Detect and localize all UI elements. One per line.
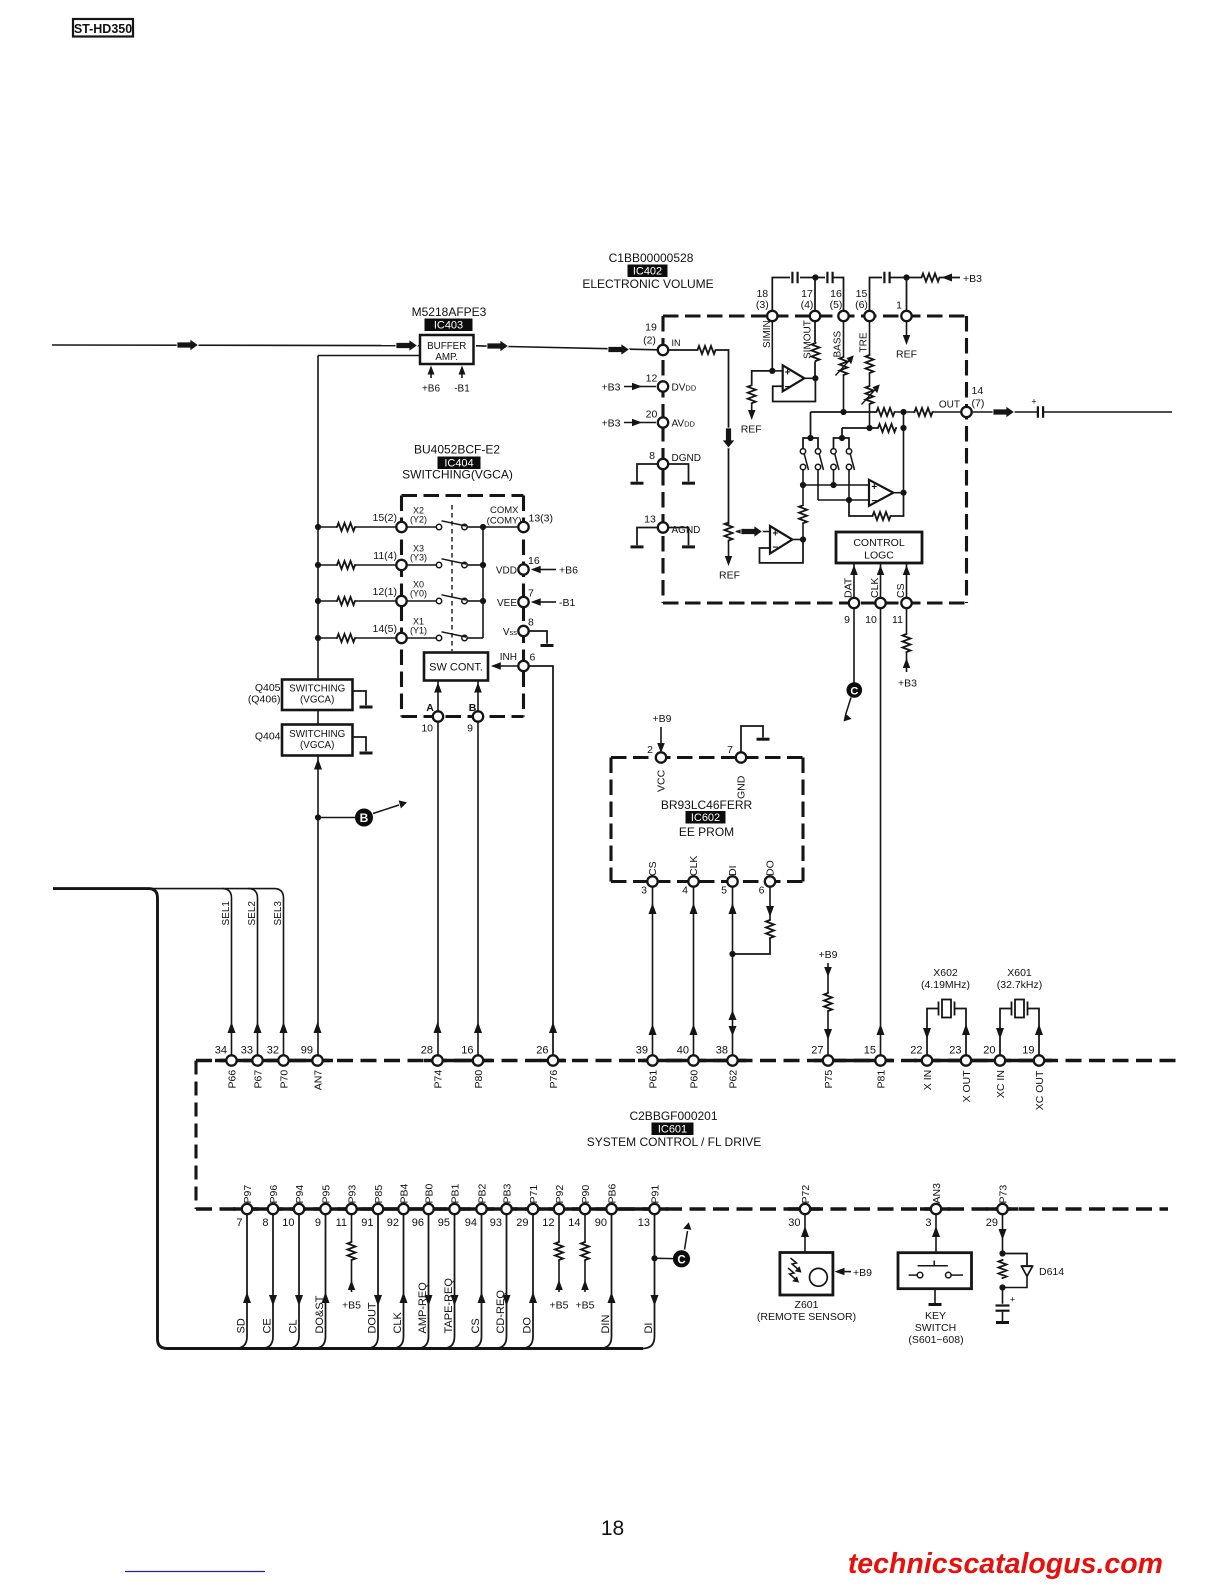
- wire OUT to coupling cap: [972, 411, 1038, 413]
- svg-text:ST-HD350: ST-HD350: [74, 22, 132, 36]
- wire pin11 CS to +B3: [906, 608, 908, 633]
- arrowhead CL: [295, 1295, 303, 1306]
- svg-text:P95: P95: [320, 1185, 332, 1204]
- wire signal column CS: [470, 1214, 482, 1348]
- wire row1 corner down to switch group1: [810, 412, 812, 438]
- svg-text:93: 93: [490, 1217, 502, 1229]
- pin 99 AN7 on IC601 top bus: [312, 1055, 322, 1065]
- pin 96 PB0 on IC601 bottom bus: [423, 1204, 433, 1214]
- wire DO down: [769, 887, 771, 919]
- pin 12 DVDD: [658, 381, 668, 391]
- svg-text:8: 8: [262, 1217, 268, 1229]
- svg-text:X602: X602: [933, 967, 958, 979]
- pin 15 (6) TRE: [864, 311, 874, 321]
- wire harness corner down: [149, 889, 158, 898]
- arrow from connector B: [373, 805, 399, 814]
- svg-text:CL: CL: [288, 1319, 300, 1333]
- svg-text:CLK: CLK: [869, 578, 881, 598]
- wire op-amp2 output: [893, 492, 903, 494]
- svg-text:90: 90: [595, 1217, 607, 1229]
- wire to resistor row 12(1): [318, 600, 336, 602]
- arrowhead toward resistor: [942, 274, 953, 282]
- svg-text:-B1: -B1: [454, 384, 470, 395]
- signal arrow on input line: [177, 339, 199, 351]
- wire switch output row 14(5): [467, 637, 483, 639]
- wire pin18 to cap row: [772, 278, 790, 312]
- svg-text:+B3: +B3: [602, 418, 621, 430]
- svg-text:OUT: OUT: [939, 400, 960, 411]
- svg-text:technicscatalogus.com: technicscatalogus.com: [848, 1548, 1163, 1580]
- svg-text:10: 10: [421, 723, 433, 735]
- pot arrow TRE: [862, 388, 878, 405]
- svg-text:Q404: Q404: [255, 731, 281, 743]
- resistor SIMOUT: [812, 342, 820, 362]
- svg-text:11: 11: [892, 614, 903, 626]
- IC601 bottom bus (dashed): [196, 1207, 1168, 1210]
- wire CLK to control logic: [880, 563, 882, 598]
- svg-text:PB2: PB2: [476, 1183, 488, 1203]
- capacitor C (TRE row): [883, 272, 885, 284]
- wire op-amp1 output: [804, 377, 815, 379]
- svg-text:(COMY): (COMY): [487, 516, 522, 527]
- arrowhead CE: [269, 1295, 277, 1306]
- svg-text:11(4): 11(4): [373, 550, 397, 562]
- wire resistor to pin 11(4): [356, 564, 397, 566]
- svg-text:DVDD: DVDD: [672, 383, 697, 394]
- svg-text:DOUT: DOUT: [367, 1302, 379, 1333]
- wire audio input line: [52, 344, 420, 347]
- wire pin10 CLK down to P81: [880, 608, 882, 1055]
- pin 20 XC IN on IC601 top bus: [995, 1055, 1005, 1065]
- svg-text:Z601: Z601: [795, 1299, 819, 1311]
- wire SIMIN pin down: [771, 321, 773, 371]
- svg-text:X601: X601: [1007, 967, 1032, 979]
- resistor P75: [824, 992, 832, 1012]
- wire pin16 down: [843, 321, 845, 356]
- switch contacts row 11(4): [407, 564, 437, 566]
- svg-text:PB0: PB0: [423, 1183, 435, 1203]
- pin 13 AGND: [658, 522, 668, 532]
- svg-text:92: 92: [387, 1217, 399, 1229]
- svg-text:P67: P67: [252, 1070, 264, 1089]
- svg-text:P91: P91: [649, 1185, 661, 1204]
- arrowhead P61 near bus: [649, 1024, 657, 1035]
- svg-text:20: 20: [646, 409, 658, 421]
- ground stub Q405: [353, 691, 367, 705]
- wire A down to P74: [437, 722, 439, 1056]
- svg-text:P93: P93: [346, 1185, 358, 1204]
- supply +B9 into Z601: [841, 1271, 851, 1273]
- arrowhead P75 down: [824, 1029, 832, 1040]
- node row1 mid: [900, 409, 906, 415]
- pin 6 DO: [765, 876, 775, 886]
- wire TRE resistor to pot: [869, 374, 871, 385]
- wire P72 to remote sensor: [804, 1214, 806, 1252]
- wire to resistor row 11(4): [318, 564, 336, 566]
- svg-text:5: 5: [721, 885, 727, 897]
- switch contact 3 (IC402): [831, 449, 836, 454]
- wire SEL1 to P66: [231, 898, 233, 1056]
- pin 26 P76 on IC601 top bus: [548, 1055, 558, 1065]
- pin 91 P85 on IC601 bottom bus: [373, 1204, 383, 1214]
- node BASS joins row1: [840, 409, 846, 415]
- svg-text:30: 30: [788, 1217, 800, 1229]
- wire INH to P76 column: [529, 666, 553, 1056]
- svg-text:12: 12: [646, 373, 658, 385]
- pin 19 (2) IN: [658, 345, 668, 355]
- svg-text:P75: P75: [823, 1070, 835, 1089]
- svg-text:SEL1: SEL1: [221, 901, 232, 926]
- pullup resistor to +B5: [351, 1214, 353, 1241]
- node SIMIN junction: [769, 368, 775, 374]
- pin 9 DAT: [849, 598, 859, 608]
- svg-text:XC IN: XC IN: [995, 1070, 1007, 1098]
- wire feedback to - row: [849, 500, 872, 516]
- wire signal column CL: [287, 1214, 299, 1348]
- resistor row1 a: [876, 408, 896, 416]
- arrowhead P80 up: [474, 1022, 482, 1033]
- wire summing row 2: [842, 427, 877, 429]
- wire junction to connector C: [655, 1257, 674, 1259]
- IC602 border left: [609, 758, 612, 882]
- key switch actuator: [918, 1265, 948, 1267]
- svg-text:P76: P76: [548, 1070, 560, 1089]
- box Z601 remote sensor: [780, 1253, 833, 1296]
- svg-text:(32.7kHz): (32.7kHz): [997, 979, 1043, 991]
- svg-text:(4): (4): [801, 299, 814, 311]
- svg-text:(3): (3): [756, 299, 769, 311]
- svg-text:(VGCA): (VGCA): [300, 740, 334, 751]
- svg-text:7: 7: [236, 1217, 242, 1229]
- node op-amp3 output: [800, 536, 806, 542]
- arrow from connector C (bottom): [685, 1231, 688, 1250]
- svg-text:X OUT: X OUT: [961, 1070, 973, 1103]
- wire junction to resistor: [907, 277, 921, 279]
- svg-text:IN: IN: [672, 338, 681, 348]
- wire harness vertical: [156, 898, 159, 1339]
- capacitor electrolytic on OUT: [1037, 406, 1039, 418]
- svg-text:SD: SD: [236, 1318, 248, 1333]
- connector B: [355, 809, 373, 827]
- node junction above pin 1: [903, 274, 909, 280]
- svg-text:C: C: [677, 1254, 685, 1266]
- wire signal column CLK: [392, 1214, 404, 1348]
- wire signal column DI: [643, 1214, 655, 1348]
- power +B6 arrow into IC403: [430, 368, 432, 378]
- svg-text:XC OUT: XC OUT: [1034, 1070, 1046, 1110]
- IC402 border top: [663, 314, 967, 317]
- arrowhead +B3 up (CS): [903, 658, 910, 668]
- wire D614 branch: [1003, 1254, 1028, 1266]
- wire SEL2 bend: [248, 889, 258, 898]
- svg-text:AN7: AN7: [312, 1070, 324, 1091]
- svg-text:TAPE-REQ: TAPE-REQ: [443, 1278, 455, 1334]
- node switch group2 top: [839, 435, 845, 441]
- potentiometer TRE: [866, 385, 874, 405]
- svg-text:P85: P85: [373, 1185, 385, 1204]
- switch contact 1 (IC402): [800, 449, 805, 454]
- wire signal column AMP-REQ: [417, 1214, 429, 1348]
- svg-text:KEY: KEY: [925, 1310, 946, 1322]
- transistor Q404 switching box: [282, 725, 353, 756]
- svg-text:−: −: [772, 543, 778, 554]
- svg-text:B: B: [360, 811, 369, 825]
- svg-text:+B3: +B3: [898, 678, 917, 690]
- svg-text:EE PROM: EE PROM: [679, 825, 734, 839]
- svg-text:GND: GND: [736, 775, 748, 799]
- arrowhead DI: [651, 1295, 659, 1306]
- potentiometer BASS: [840, 356, 848, 376]
- resistor input 14(5): [336, 634, 356, 642]
- IC601 top bus (dashed): [196, 1059, 1180, 1062]
- svg-text:(5): (5): [830, 299, 843, 311]
- switch contact 4 (IC402): [846, 449, 851, 454]
- svg-text:−: −: [871, 496, 877, 507]
- svg-text:9: 9: [467, 723, 473, 735]
- pin 5 DI: [727, 876, 737, 886]
- wire signal column SD: [235, 1214, 247, 1348]
- wire cap down to pin 16: [833, 278, 844, 312]
- svg-text:VCC: VCC: [656, 769, 668, 792]
- arrowhead AMP-REQ: [425, 1295, 433, 1306]
- pin 8 P96 on IC601 bottom bus: [268, 1204, 278, 1214]
- svg-text:20: 20: [983, 1045, 995, 1057]
- svg-text:29: 29: [516, 1217, 528, 1229]
- wire pot to REF arrow: [728, 542, 730, 560]
- pin 16 VDD: [518, 564, 528, 574]
- svg-text:11: 11: [336, 1217, 347, 1229]
- wire P73 down: [1002, 1214, 1004, 1253]
- wire resistor to pin 15(2): [356, 526, 397, 528]
- ground under key switch: [934, 1289, 936, 1303]
- svg-text:(Y0): (Y0): [410, 589, 427, 599]
- arrowhead P76 up: [549, 1022, 557, 1033]
- node junction above pin 17: [812, 274, 818, 280]
- pin 95 PB1 on IC601 bottom bus: [449, 1204, 459, 1214]
- svg-text:DO: DO: [765, 860, 777, 876]
- pin 7 P97 on IC601 bottom bus: [242, 1204, 252, 1214]
- svg-text:P90: P90: [580, 1185, 592, 1204]
- svg-text:IC602: IC602: [691, 812, 720, 824]
- arrowhead AN7 up: [314, 1022, 322, 1033]
- svg-text:SEL2: SEL2: [247, 901, 258, 926]
- capacitor C (SIMIN-SIMOUT): [791, 272, 793, 284]
- svg-text:8: 8: [528, 617, 534, 629]
- wire signal column DIN: [600, 1214, 612, 1348]
- box CONTROL LOGC: [836, 532, 922, 563]
- svg-text:PB1: PB1: [449, 1183, 461, 1203]
- svg-text:DAT: DAT: [843, 577, 855, 598]
- arrowhead CLK: [400, 1292, 408, 1303]
- pin 93 PB3 on IC601 bottom bus: [501, 1204, 511, 1214]
- svg-text:CS: CS: [470, 1318, 482, 1333]
- svg-text:AVDD: AVDD: [672, 419, 696, 430]
- crystal X602 (4.19MHz): [927, 1009, 939, 1056]
- svg-text:22: 22: [910, 1045, 922, 1057]
- pin 16 (5) BASS: [838, 311, 848, 321]
- svg-text:IC601: IC601: [658, 1123, 687, 1135]
- IC601 top bus solid segment: [424, 1059, 492, 1062]
- svg-text:3: 3: [925, 1217, 931, 1229]
- arrowhead P81 up: [877, 1024, 885, 1035]
- svg-text:PB3: PB3: [501, 1183, 513, 1203]
- pin 10 A: [433, 711, 443, 721]
- wire to resistor row 14(5): [318, 637, 336, 639]
- ground DGND right: [668, 464, 688, 482]
- svg-text:13(3): 13(3): [529, 513, 554, 525]
- svg-text:19: 19: [1022, 1045, 1034, 1057]
- wire op-amp2 feedback: [892, 493, 904, 516]
- wire contact2 down to - row: [817, 470, 819, 500]
- switch contacts row 12(1): [407, 600, 437, 602]
- node COM row1: [480, 524, 486, 530]
- node B connector junction: [315, 814, 321, 820]
- arrowhead CS: [478, 1292, 486, 1303]
- svg-text:COMX: COMX: [490, 505, 519, 516]
- wire resistor to +B3 arrow: [906, 653, 908, 672]
- svg-text:BUFFER: BUFFER: [427, 341, 466, 352]
- svg-text:VEE: VEE: [497, 598, 517, 609]
- photodiode circle in Z601: [810, 1268, 828, 1286]
- pin 8 Vss: [518, 626, 528, 636]
- key switch contacts: [909, 1274, 918, 1276]
- node DI-DO junction: [729, 951, 735, 957]
- svg-text:DI: DI: [643, 1323, 655, 1334]
- pin 3 AN3 on IC601 bottom bus: [931, 1204, 941, 1214]
- wire TRE pot to summing row 2: [869, 405, 871, 428]
- pin 90 PB6 on IC601 bottom bus: [606, 1204, 616, 1214]
- svg-text:96: 96: [412, 1217, 424, 1229]
- IC403 designator: [425, 319, 473, 332]
- wire between Q405 and Q404: [317, 710, 319, 725]
- ground under capacitor: [1002, 1312, 1004, 1321]
- op-amp U3 (REF buffer): [770, 526, 792, 554]
- arrowhead P74 up: [434, 1022, 442, 1033]
- pin 15 P81 on IC601 top bus: [875, 1055, 885, 1065]
- node VGCA bus joins row 11(4): [315, 562, 321, 568]
- svg-text:(7): (7): [972, 398, 985, 410]
- svg-text:P62: P62: [727, 1070, 739, 1089]
- op-amp U IC403 buffer amp box: [420, 335, 474, 364]
- pin 9 B: [473, 711, 483, 721]
- signal arrow on wiper: [741, 526, 763, 538]
- switch contacts row 14(5): [407, 637, 437, 639]
- IC402 border bottom: [663, 601, 967, 604]
- pin 2 VCC: [656, 752, 666, 762]
- arrowhead up into Q404: [314, 759, 322, 770]
- svg-text:CS: CS: [895, 583, 907, 598]
- IC601 top bus solid segment: [638, 1059, 746, 1062]
- svg-text:6: 6: [530, 652, 536, 664]
- arrow from connector C: [846, 698, 851, 715]
- svg-text:LOGC: LOGC: [864, 550, 894, 562]
- diode D614: [1021, 1265, 1032, 1267]
- svg-text:16: 16: [528, 555, 540, 567]
- IC602 border top: [611, 756, 803, 759]
- pin 14 P90 on IC601 bottom bus: [580, 1204, 590, 1214]
- wire to electrolytic cap: [1002, 1288, 1004, 1304]
- wire resistor to REF arrow: [751, 404, 753, 413]
- svg-text:SEL3: SEL3: [273, 901, 284, 926]
- wire SEL feed line: [152, 888, 274, 890]
- switch contact 2 (IC402): [815, 449, 820, 454]
- svg-text:13: 13: [638, 1217, 650, 1229]
- wire contact1 down to + row: [802, 470, 804, 485]
- IC602 border right: [801, 758, 804, 882]
- wire signal column DO&amp;ST: [314, 1214, 326, 1348]
- resistor TRE upper: [866, 354, 874, 374]
- resistor op-amp2 feedback: [872, 512, 892, 520]
- svg-text:BU4052BCF-E2: BU4052BCF-E2: [414, 443, 500, 457]
- svg-text:-B1: -B1: [559, 597, 576, 609]
- wire row1 to OUT pin: [934, 411, 962, 413]
- svg-text:29: 29: [986, 1217, 998, 1229]
- wire resistor to +B3: [941, 277, 961, 279]
- svg-text:SWITCH: SWITCH: [915, 1322, 956, 1334]
- pin 14(5) IC404: [396, 633, 406, 643]
- wire harness bottom corner: [158, 1339, 168, 1349]
- resistor row1 b: [914, 408, 934, 416]
- wire resistor to P75 pin: [827, 1012, 829, 1056]
- svg-text:14: 14: [972, 385, 984, 397]
- wire signal column DOUT: [366, 1214, 378, 1348]
- wire Q404 down to AN7 column: [317, 756, 319, 1056]
- pin 7 GND: [736, 752, 746, 762]
- svg-text:8: 8: [649, 450, 655, 462]
- svg-text:P60: P60: [688, 1070, 700, 1089]
- pin 16 P80 on IC601 top bus: [473, 1055, 483, 1065]
- switch contacts row 15(2): [407, 526, 437, 528]
- pin 92 PB4 on IC601 bottom bus: [398, 1204, 408, 1214]
- svg-text:P97: P97: [242, 1185, 254, 1204]
- wire node column x=903.5: [903, 412, 905, 493]
- svg-text:P80: P80: [473, 1070, 485, 1089]
- svg-text:+B6: +B6: [422, 384, 441, 395]
- svg-text:P73: P73: [997, 1185, 1009, 1204]
- resistor to op-amp3 output: [799, 504, 807, 524]
- wire pin15 down: [869, 321, 871, 354]
- svg-text:99: 99: [301, 1045, 313, 1057]
- node + row junction: [830, 482, 836, 488]
- node VGCA bus joins row 12(1): [315, 598, 321, 604]
- svg-text:A: A: [426, 702, 434, 714]
- wire contact3 down to + row: [833, 470, 835, 485]
- svg-text:AN3: AN3: [931, 1183, 943, 1204]
- node op-amp1 output: [812, 375, 818, 381]
- wire resistor to volume pot branch: [717, 350, 729, 525]
- op-amp U2 (volume): [869, 480, 893, 506]
- IC601 bottom bus solid segment: [920, 1207, 950, 1210]
- pin 19 XC OUT on IC601 top bus: [1034, 1055, 1044, 1065]
- wire stub from switching bus to IC403: [318, 355, 420, 357]
- svg-text:95: 95: [438, 1217, 450, 1229]
- svg-text:9: 9: [844, 614, 850, 626]
- ground AGND left: [637, 528, 658, 546]
- wire IC403 output to IC402 IN: [476, 346, 658, 350]
- wire switch output row 11(4): [467, 564, 483, 566]
- crystal X601 (32.7kHz): [1000, 1009, 1012, 1056]
- wire resistor to pin 14(5): [356, 637, 397, 639]
- resistor row2: [877, 424, 897, 432]
- svg-text:+B6: +B6: [559, 565, 578, 577]
- svg-text:CD-REQ: CD-REQ: [495, 1290, 507, 1334]
- svg-text:SIMOUT: SIMOUT: [803, 320, 814, 359]
- wire CS to control logic: [906, 563, 908, 598]
- arrowhead REF down (volume): [725, 556, 732, 566]
- svg-text:33: 33: [241, 1045, 253, 1057]
- IC602 border bottom: [611, 880, 803, 883]
- svg-text:+B3: +B3: [602, 382, 621, 394]
